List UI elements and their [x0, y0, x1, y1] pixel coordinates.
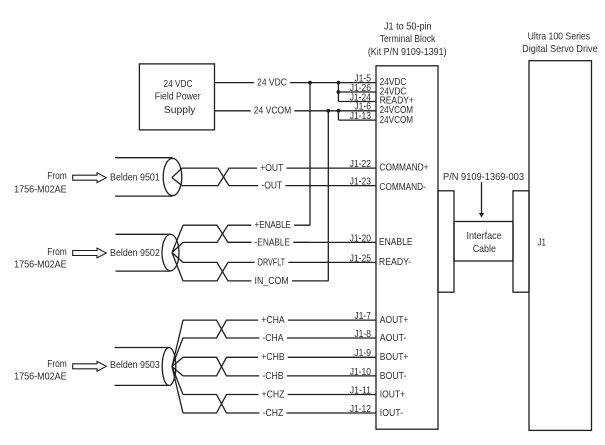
svg-text:IOUT+: IOUT+: [380, 389, 405, 400]
svg-text:BOUT+: BOUT+: [380, 352, 409, 363]
svg-text:J1-11: J1-11: [350, 385, 372, 396]
svg-text:READY-: READY-: [379, 257, 411, 268]
svg-text:IOUT-: IOUT-: [380, 408, 403, 419]
svg-text:-CHA: -CHA: [262, 333, 283, 344]
svg-text:Interface: Interface: [466, 231, 502, 242]
svg-text:1756-M02AE: 1756-M02AE: [14, 185, 67, 196]
svg-text:J1 to 50-pin: J1 to 50-pin: [384, 21, 432, 32]
svg-text:DRVFLT: DRVFLT: [258, 257, 285, 268]
svg-text:Cable: Cable: [473, 244, 496, 255]
svg-text:IN_COM: IN_COM: [255, 276, 289, 287]
svg-text:Belden 9501: Belden 9501: [110, 172, 160, 183]
svg-text:COMMAND+: COMMAND+: [379, 163, 428, 174]
svg-text:J1-7: J1-7: [354, 311, 371, 322]
svg-text:-CHZ: -CHZ: [263, 408, 284, 419]
svg-text:Digital Servo Drive: Digital Servo Drive: [522, 44, 598, 55]
svg-text:From: From: [47, 247, 67, 258]
svg-text:Field Power: Field Power: [155, 91, 201, 102]
svg-text:24 VCOM: 24 VCOM: [254, 106, 291, 117]
svg-text:+OUT: +OUT: [260, 163, 283, 174]
svg-text:-ENABLE: -ENABLE: [255, 237, 291, 248]
svg-text:BOUT-: BOUT-: [380, 371, 407, 382]
svg-text:J1-13: J1-13: [350, 111, 372, 122]
svg-text:-CHB: -CHB: [262, 371, 283, 382]
svg-text:J1-22: J1-22: [350, 159, 372, 170]
svg-text:24 VDC: 24 VDC: [164, 79, 193, 90]
svg-text:From: From: [47, 171, 67, 182]
svg-text:ENABLE: ENABLE: [379, 237, 413, 248]
svg-text:(Kit P/N 9109-1391): (Kit P/N 9109-1391): [368, 47, 447, 58]
svg-text:24 VDC: 24 VDC: [257, 78, 287, 89]
svg-text:+ENABLE: +ENABLE: [255, 220, 292, 231]
svg-text:Belden 9503: Belden 9503: [110, 360, 160, 371]
svg-text:Supply: Supply: [164, 105, 196, 116]
svg-text:24VCOM: 24VCOM: [380, 115, 414, 126]
svg-text:+CHA: +CHA: [261, 315, 285, 326]
svg-text:Belden 9502: Belden 9502: [110, 248, 160, 259]
svg-text:-OUT: -OUT: [261, 181, 282, 192]
svg-text:J1-9: J1-9: [354, 348, 371, 359]
svg-text:AOUT-: AOUT-: [380, 333, 407, 344]
svg-text:J1-23: J1-23: [350, 177, 372, 188]
svg-text:J1: J1: [538, 237, 547, 248]
svg-text:J1-25: J1-25: [350, 253, 372, 264]
svg-text:J1-8: J1-8: [354, 329, 371, 340]
svg-text:+CHB: +CHB: [261, 352, 285, 363]
svg-text:From: From: [47, 359, 67, 370]
svg-text:Ultra 100 Series: Ultra 100 Series: [528, 31, 591, 42]
svg-text:J1-10: J1-10: [350, 367, 372, 378]
svg-text:+CHZ: +CHZ: [262, 389, 285, 400]
svg-text:1756-M02AE: 1756-M02AE: [14, 372, 67, 383]
svg-text:J1-20: J1-20: [350, 233, 372, 244]
svg-text:Terminal Block: Terminal Block: [380, 34, 436, 45]
svg-text:P/N 9109-1369-003: P/N 9109-1369-003: [443, 172, 524, 183]
svg-text:1756-M02AE: 1756-M02AE: [14, 259, 67, 270]
svg-text:J1-12: J1-12: [350, 404, 372, 415]
svg-text:AOUT+: AOUT+: [380, 315, 409, 326]
svg-text:COMMAND-: COMMAND-: [379, 182, 426, 193]
